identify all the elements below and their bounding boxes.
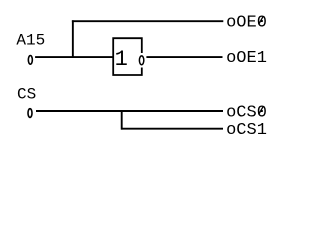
svg-text:oOE1: oOE1 (226, 49, 267, 68)
svg-text:1: 1 (115, 47, 128, 72)
svg-text:oCS1: oCS1 (226, 121, 267, 140)
svg-text:A15: A15 (16, 32, 45, 50)
svg-text:oCS0: oCS0 (226, 103, 267, 122)
svg-text:CS: CS (17, 85, 36, 103)
svg-text:oOE0: oOE0 (226, 13, 267, 32)
